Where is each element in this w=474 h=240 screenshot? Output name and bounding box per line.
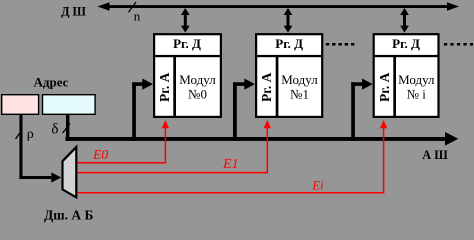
svg-text:Рг. А: Рг. А: [377, 72, 392, 102]
svg-text:Рг. Д: Рг. Д: [275, 36, 303, 51]
svg-text:E1: E1: [222, 157, 239, 172]
svg-text:Модул: Модул: [281, 72, 318, 87]
svg-text:№ i: № i: [407, 86, 427, 101]
svg-text:№0: №0: [188, 86, 207, 101]
svg-text:Рг. Д: Рг. Д: [173, 36, 201, 51]
svg-text:Дш. А Б: Дш. А Б: [44, 207, 94, 222]
svg-text:n: n: [134, 8, 141, 23]
svg-text:Рг. А: Рг. А: [157, 72, 172, 102]
svg-text:Адрес: Адрес: [34, 74, 69, 89]
svg-text:Рг. А: Рг. А: [259, 72, 274, 102]
svg-text:δ: δ: [51, 122, 58, 138]
svg-text:Ei: Ei: [311, 178, 324, 193]
svg-text:№1: №1: [290, 86, 309, 101]
svg-text:ρ: ρ: [27, 127, 34, 142]
svg-text:А Ш: А Ш: [422, 148, 448, 162]
svg-text:Модул: Модул: [179, 72, 216, 87]
svg-text:E0: E0: [92, 147, 108, 162]
svg-text:Д Ш: Д Ш: [61, 4, 86, 18]
svg-text:Рг. Д: Рг. Д: [392, 36, 420, 51]
svg-text:Модул: Модул: [398, 72, 435, 87]
